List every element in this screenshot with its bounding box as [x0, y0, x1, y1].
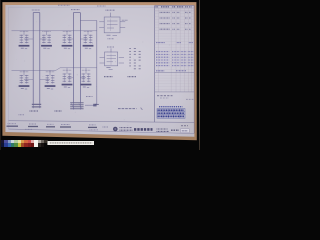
approval stamp table	[157, 107, 185, 119]
contact marks below K2	[106, 68, 112, 70]
scan bed left edge sliver	[0, 0, 2, 150]
sheet tan edge	[0, 0, 200, 150]
transformer unit T4b	[80, 68, 91, 88]
scan bed right edge highlight	[199, 0, 200, 150]
transformer unit T3a	[19, 70, 34, 89]
contact marks below K1	[107, 35, 118, 39]
company name small lines	[120, 128, 133, 131]
transformer unit T3b	[40, 70, 56, 89]
sloped wire joining row 2 segments	[56, 68, 60, 71]
wires right of K1	[120, 22, 125, 28]
label above K1	[106, 9, 116, 11]
revision entries block 1	[160, 12, 191, 29]
small note bottom-left	[19, 114, 25, 116]
caption FIG.1 under left column	[30, 110, 39, 112]
pencil note top-right of stamp	[186, 98, 195, 100]
row 1 horizontal wire	[12, 30, 97, 32]
transformer unit T4a	[62, 68, 74, 88]
pencil note Eng.No	[157, 96, 173, 98]
title band bottom rule	[9, 129, 195, 133]
approval cell underline 3	[46, 124, 55, 127]
terminal block at left bus bottom	[32, 104, 41, 109]
pin stub top of K1	[110, 13, 112, 17]
revision entries block 2	[156, 43, 193, 71]
color calibration bar	[1, 140, 48, 147]
approval cell underline 5	[88, 125, 97, 128]
node label top-center	[97, 5, 106, 7]
title block mid text	[157, 129, 170, 131]
archive label strip	[47, 141, 94, 145]
node label top-left	[58, 4, 70, 6]
revision table header text	[156, 6, 192, 8]
relay detail K1 box	[104, 17, 120, 33]
junction cluster right of feeder	[85, 97, 97, 107]
caption under K2	[104, 76, 113, 78]
pencil scribble above number box	[181, 125, 188, 127]
title band top rule	[9, 121, 195, 123]
bus duct right (wire pair)	[73, 13, 80, 103]
bus duct left (wire pair)	[33, 13, 40, 104]
sub note under band left	[25, 128, 32, 130]
terminal tick on feeder wire	[95, 103, 99, 105]
caption under pin list	[128, 76, 137, 78]
paper shading	[0, 0, 200, 150]
label T1 above left bus	[32, 9, 40, 11]
row 2 horizontal wire left	[12, 69, 57, 71]
sheet number box	[181, 129, 190, 133]
caption FIG.2 under right column	[55, 110, 63, 112]
label above K2	[107, 46, 115, 48]
transformer unit T1a	[19, 31, 34, 49]
terminal ladder at right bus bottom	[70, 102, 83, 110]
sheet border frame line	[9, 7, 195, 133]
sub note under band mid	[90, 129, 99, 131]
wires right of K2	[119, 57, 124, 63]
note line center	[118, 108, 142, 110]
transformer unit T1b	[40, 31, 52, 49]
label T2 above right bus	[71, 9, 80, 11]
approval cell underline 2	[28, 124, 38, 127]
wires left of K1	[99, 22, 104, 28]
pin stub top of K2	[110, 48, 112, 52]
transformer unit T2b	[80, 31, 93, 49]
relay detail K2 box	[105, 52, 118, 66]
drawing number cell	[171, 129, 179, 131]
approval cell underline 4	[60, 125, 71, 128]
revision table grid	[155, 5, 195, 133]
pin labels right of K1	[122, 19, 128, 21]
small text left of logo	[103, 126, 109, 128]
company logo	[113, 127, 118, 132]
approval cell underline 1	[7, 124, 19, 127]
feeder wire top right	[80, 20, 96, 22]
wires left of K2	[100, 57, 105, 63]
drawing title kanji	[134, 128, 153, 131]
row 2 horizontal wire right	[60, 67, 97, 69]
blueprint paper	[0, 0, 200, 150]
pin assignment list	[129, 49, 140, 69]
vertical feeder wire	[96, 21, 98, 105]
transformer unit T2a	[62, 31, 74, 49]
scan speckles	[17, 13, 189, 126]
